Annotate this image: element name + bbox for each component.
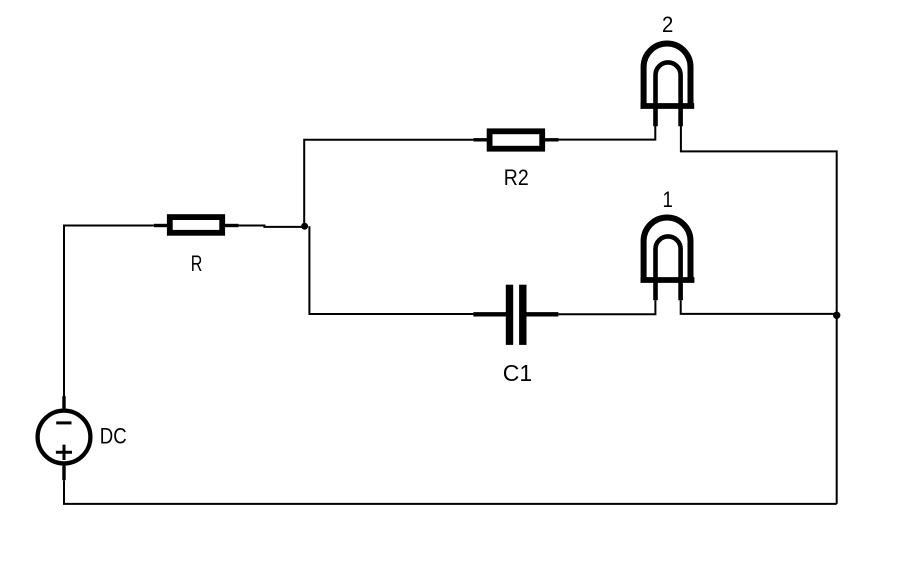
svg-text:R2: R2 — [504, 165, 529, 190]
svg-text:DC: DC — [100, 424, 127, 449]
svg-text:1: 1 — [663, 187, 673, 212]
svg-text:C1: C1 — [503, 360, 532, 386]
svg-text:2: 2 — [662, 12, 673, 37]
svg-text:R: R — [191, 251, 203, 276]
